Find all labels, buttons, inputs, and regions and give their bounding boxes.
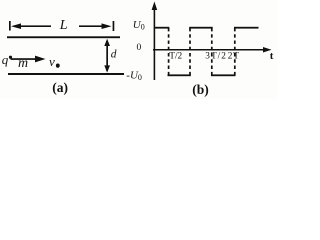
waveform top segment 2	[189, 27, 213, 29]
dashed transition at 3T/2	[211, 28, 213, 75]
bottom plate	[8, 73, 124, 75]
dimension tick right	[113, 21, 115, 31]
svg-text:(a): (a)	[52, 80, 68, 95]
dashed transition at 2T	[234, 28, 236, 75]
dimension arrow L right segment	[79, 23, 112, 29]
svg-text:3T/2: 3T/2	[205, 51, 227, 61]
svg-text:t: t	[270, 50, 274, 62]
svg-text:v: v	[49, 54, 55, 69]
svg-text:(b): (b)	[192, 82, 209, 97]
waveform bottom segment 2	[211, 74, 236, 76]
svg-text:2T: 2T	[228, 51, 240, 61]
velocity arrow	[11, 56, 46, 63]
top plate	[7, 36, 120, 38]
charge dot	[9, 56, 12, 59]
svg-text:0: 0	[137, 43, 142, 53]
waveform bottom segment 1	[168, 74, 191, 76]
dashed transition at T	[189, 28, 191, 75]
svg-text:d: d	[111, 49, 117, 61]
svg-text:L: L	[59, 18, 68, 33]
waveform top segment 1	[154, 27, 169, 29]
dashed transition at T/2	[168, 28, 170, 75]
svg-text:q: q	[2, 52, 9, 67]
dimension arrow L left segment	[11, 23, 51, 29]
t axis	[153, 47, 272, 53]
U axis	[152, 2, 158, 81]
dimension tick left	[9, 21, 11, 31]
waveform top segment 3	[234, 27, 259, 29]
svg-text:T/2: T/2	[169, 51, 182, 61]
d dimension arrow	[104, 39, 110, 73]
svg-text:m: m	[18, 56, 28, 71]
